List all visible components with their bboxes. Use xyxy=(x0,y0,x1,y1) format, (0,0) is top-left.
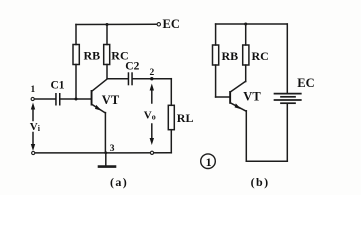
ground stub xyxy=(105,153,107,166)
svg-text:RL: RL xyxy=(177,111,194,125)
wire emitter down (b) xyxy=(245,111,247,161)
wire RB bottom lead xyxy=(75,65,77,100)
wire input to C1 xyxy=(35,98,56,100)
svg-text:C2: C2 xyxy=(125,61,139,73)
resistor RL xyxy=(168,105,174,129)
circled number 1 xyxy=(201,154,216,169)
svg-text:EC: EC xyxy=(163,17,180,31)
svg-text:1: 1 xyxy=(206,155,212,169)
resistor RB (b) xyxy=(213,45,219,65)
capacitor C1 xyxy=(55,93,60,106)
wire RL top lead xyxy=(170,79,172,106)
svg-text:1: 1 xyxy=(31,85,36,95)
wire bottom rail (a) xyxy=(35,152,171,154)
node junction RC(b) top xyxy=(244,23,247,26)
node input terminal bottom xyxy=(32,151,35,154)
resistor RC (a) xyxy=(104,45,110,65)
svg-text:VT: VT xyxy=(243,89,261,103)
svg-text:3: 3 xyxy=(110,144,115,154)
svg-text:RC: RC xyxy=(252,49,269,63)
node emitter-ground junction xyxy=(104,151,107,154)
svg-text:C1: C1 xyxy=(51,80,65,92)
wire bottom rail (b) xyxy=(246,160,287,162)
transistor VT (b) emitter arrowhead xyxy=(235,103,242,109)
wire emitter down xyxy=(104,113,106,153)
Vo arrow down xyxy=(150,124,154,145)
wire RB(b) top lead xyxy=(215,24,217,45)
wire RB(b) bottom lead xyxy=(215,65,217,97)
node output terminal bottom xyxy=(150,151,153,154)
wire RC(b) bottom lead xyxy=(245,65,247,82)
wire RB top lead xyxy=(75,25,77,45)
node input terminal 1 xyxy=(31,97,34,100)
svg-text:(b): (b) xyxy=(251,175,270,189)
wire RC top lead xyxy=(106,25,108,45)
wire base (b) xyxy=(216,96,230,98)
svg-text:VT: VT xyxy=(102,93,120,107)
svg-text:EC: EC xyxy=(297,76,314,90)
wire battery bottom lead xyxy=(286,104,288,161)
resistor RB (a) xyxy=(73,45,79,65)
transistor VT (b) base bar xyxy=(229,91,231,104)
battery EC plates xyxy=(275,94,301,104)
resistor RC (b) xyxy=(243,45,249,65)
svg-text:(a): (a) xyxy=(110,175,128,189)
Vi arrow down xyxy=(31,133,35,152)
node junction RC top xyxy=(106,23,109,26)
capacitor C2 xyxy=(128,72,133,85)
transistor VT (b) emitter stroke xyxy=(231,103,246,111)
wire collector to C2 xyxy=(107,78,127,80)
transistor VT (a) collector stroke xyxy=(92,79,107,91)
node 2 dot xyxy=(150,77,153,80)
transistor VT (b) collector stroke xyxy=(231,81,246,91)
transistor VT (a) emitter stroke xyxy=(92,105,105,113)
svg-text:2: 2 xyxy=(150,68,155,78)
wire top rail (a) xyxy=(76,23,157,25)
wire top rail (b) xyxy=(216,23,288,25)
svg-text:RB: RB xyxy=(222,49,239,63)
transistor VT (a) emitter arrowhead xyxy=(95,105,102,111)
wire RC(b) top lead xyxy=(245,24,247,45)
ground bar xyxy=(99,165,115,168)
svg-text:Vo: Vo xyxy=(144,109,156,121)
node junction RB-input xyxy=(75,98,78,101)
wire C1 to base xyxy=(61,98,91,100)
wire C2 to RL corner xyxy=(133,78,171,80)
node EC terminal (a) xyxy=(157,23,160,26)
svg-text:Vi: Vi xyxy=(30,121,41,133)
transistor VT (a) base bar xyxy=(91,90,93,106)
wire battery top lead xyxy=(286,24,288,93)
wire RC bottom lead xyxy=(106,65,108,79)
Vo arrow up xyxy=(150,84,154,104)
wire RL bottom lead xyxy=(170,130,172,153)
Vi arrow up xyxy=(31,103,35,121)
svg-text:RB: RB xyxy=(84,48,101,62)
